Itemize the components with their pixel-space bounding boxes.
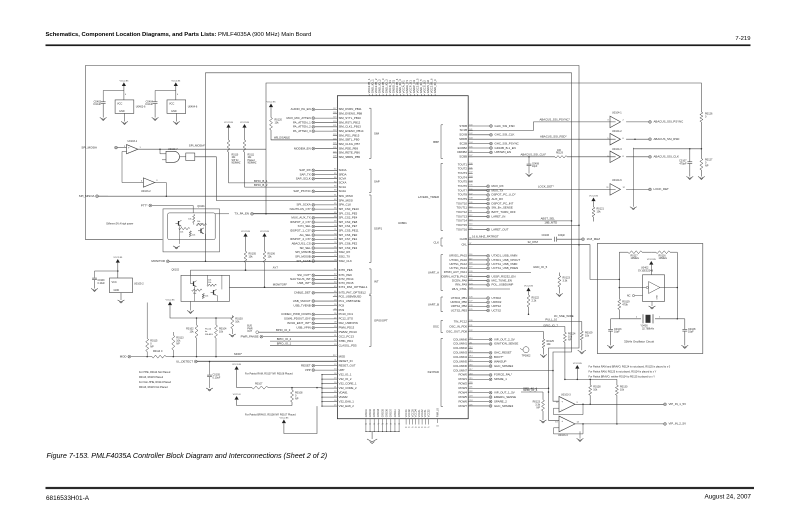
svg-text:STB1_PD4: STB1_PD4: [339, 339, 354, 343]
svg-text:(75XXL): (75XXL): [197, 224, 204, 226]
svg-text:VCCS1: VCCS1: [425, 409, 427, 417]
svg-text:SPARE_1: SPARE_1: [494, 377, 507, 381]
svg-text:GHC_SPARE2: GHC_SPARE2: [494, 364, 514, 368]
resistor R0102: [186, 325, 198, 357]
svg-text:VCCD3: VCCD3: [412, 409, 414, 418]
svg-text:U0801: U0801: [398, 221, 407, 225]
svg-text:VCC: VCC: [169, 102, 174, 105]
svg-text:VCC2.85: VCC2.85: [647, 259, 657, 261]
wire SPI_MOSIA* net: [138, 144, 266, 150]
svg-text:VPP: VPP: [305, 368, 311, 372]
svg-text:CKL: CKL: [461, 243, 467, 247]
svg-text:R0113, R0115 Placed: R0113, R0115 Placed: [139, 376, 164, 379]
svg-text:0.10uF: 0.10uF: [93, 103, 101, 106]
svg-text:VCC2.85: VCC2.85: [279, 418, 289, 420]
svg-text:WLS_CTRL: WLS_CTRL: [452, 287, 468, 291]
svg-text:COLUMN0: COLUMN0: [453, 337, 467, 341]
op-amp U0103-3: [554, 393, 664, 414]
svg-text:0.10uF: 0.10uF: [98, 283, 106, 285]
svg-text:VCC2.85: VCC2.85: [589, 196, 599, 198]
svg-text:ECKB2: ECKB2: [458, 146, 468, 150]
VCC arrow mid-bottom: [565, 363, 617, 380]
U0801 SAP group rows: [229, 168, 380, 193]
svg-text:GNDD1: GNDD1: [366, 408, 368, 417]
svg-text:ROW0: ROW0: [458, 373, 467, 377]
resistor R0110: [227, 128, 241, 183]
svg-text:GND: GND: [657, 294, 659, 299]
buffer U0103-2: [122, 152, 158, 193]
svg-text:SIM: SIM: [374, 132, 380, 136]
transistor pair box Q0101 outer: [163, 205, 220, 252]
svg-text:UL_DETECT: UL_DETECT: [176, 359, 193, 363]
svg-text:UART_A: UART_A: [428, 271, 439, 275]
svg-text:PC8: PC8: [339, 303, 345, 307]
svg-text:VCC1.85: VCC1.85: [232, 364, 242, 366]
svg-text:SCKB: SCKB: [459, 133, 467, 137]
svg-text:U0105-2: U0105-2: [134, 282, 144, 285]
resistor R0124: [563, 327, 576, 381]
capacitor C0107: [679, 149, 692, 177]
wire ABACUS_SSI_CLK* with series resistor R0129: [468, 156, 555, 158]
U0801 UART_A group rows: [428, 254, 548, 291]
svg-text:43: 43: [415, 427, 417, 429]
resistor R0127: [700, 149, 713, 177]
connector SPI_MISOA: [79, 194, 108, 198]
svg-text:TX_PA_EN: TX_PA_EN: [234, 212, 249, 216]
VCC arrow R0110: [226, 124, 230, 128]
svg-text:SPI_MOSIA: SPI_MOSIA: [81, 145, 97, 149]
svg-text:Figure 7-153. PMLF4035A Contro: Figure 7-153. PMLF4035A Controller Block…: [47, 451, 328, 460]
svg-text:CLK: CLK: [433, 240, 439, 244]
svg-text:GPIO/GPT: GPIO/GPT: [374, 319, 388, 323]
ground under C0402: [100, 118, 107, 121]
svg-text:GNDA2: GNDA2: [398, 408, 401, 417]
svg-text:MONITOR*: MONITOR*: [273, 283, 288, 287]
svg-text:SIP for: SIP for: [232, 159, 239, 162]
svg-text:VCC2.85: VCC2.85: [119, 81, 129, 83]
svg-text:VDA81: VDA81: [339, 390, 348, 394]
svg-text:0.10uF: 0.10uF: [145, 103, 153, 106]
svg-text:USB_INT*: USB_INT*: [297, 281, 311, 285]
svg-text:V32_IO_2: V32_IO_2: [339, 377, 352, 381]
svg-text:V32_CORE_1: V32_CORE_1: [339, 381, 357, 385]
svg-text:32.768kHz: 32.768kHz: [642, 327, 655, 330]
svg-text:32: 32: [398, 423, 400, 425]
svg-text:VCCS2: VCCS2: [428, 409, 430, 417]
svg-text:GHC_SPARE3: GHC_SPARE3: [494, 404, 514, 408]
U0801 UART_B group rows: [428, 296, 502, 312]
ground under C0109: [91, 289, 98, 292]
svg-text:For Patriot RAM, R0125 is not: For Patriot RAM, R0125 is not placed, R0…: [589, 370, 657, 373]
U0801 bottom VCC pin stubs: [405, 409, 430, 429]
U0801 TOUT group rows: [418, 162, 517, 231]
wire osc right net: [677, 252, 679, 319]
svg-text:SSI2_CLK: SSI2_CLK: [339, 259, 352, 263]
svg-text:GD10B_B-1_EN: GD10B_B-1_EN: [495, 146, 516, 150]
svg-text:PWM2_PD10: PWM2_PD10: [339, 330, 358, 334]
svg-text:COLUMN4: COLUMN4: [453, 355, 467, 359]
svg-text:TOUT16: TOUT16: [456, 227, 467, 231]
svg-text:VCC1.8: VCC1.8: [233, 394, 241, 396]
svg-text:SC1B: SC1B: [460, 128, 468, 132]
svg-text:R0107: R0107: [255, 382, 263, 385]
svg-text:-: -: [128, 150, 129, 154]
svg-text:DRDB2: DRDB2: [457, 150, 467, 154]
svg-text:3.3k: 3.3k: [563, 280, 568, 283]
svg-text:V32_EA8_1: V32_EA8_1: [339, 399, 355, 403]
svg-text:POL_USBDUMP: POL_USBDUMP: [492, 283, 514, 287]
svg-text:470k: 470k: [622, 304, 628, 307]
svg-text:ROW2: ROW2: [458, 382, 467, 386]
svg-text:U0103-2: U0103-2: [141, 190, 151, 193]
ground under U0801: [367, 439, 377, 444]
ground under U0103-4: [577, 439, 584, 442]
wire 16B_MTD: [468, 221, 580, 226]
svg-text:PWM_PD13: PWM_PD13: [339, 326, 355, 330]
wire buffer out to SPI_MISOA row: [155, 183, 167, 197]
svg-text:44: 44: [418, 427, 420, 429]
wire top loop 2: [206, 73, 572, 401]
svg-text:ABACUS_SSI_CLK*: ABACUS_SSI_CLK*: [521, 152, 548, 156]
svg-text:INT0_PE6: INT0_PE6: [339, 268, 353, 272]
svg-text:41: 41: [408, 427, 410, 429]
ground under R0123A: [556, 294, 563, 297]
svg-text:MOD: MOD: [339, 354, 346, 358]
transistor Q0101-A: [176, 220, 182, 226]
svg-text:LAYER1_TIMER: LAYER1_TIMER: [418, 195, 439, 199]
svg-text:VCC2.85: VCC2.85: [241, 231, 251, 233]
svg-text:900MHZ: 900MHZ: [232, 163, 242, 165]
U0801 BBP group rows: [433, 124, 518, 159]
capacitor C0109: [92, 271, 118, 289]
svg-text:16.8_MHZ: 16.8_MHZ: [587, 237, 601, 241]
svg-text:SPI_MISOA: SPI_MISOA: [79, 194, 95, 198]
svg-text:For Patriot RAM and BRAVO, R01: For Patriot RAM and BRAVO, R0124 is not …: [589, 365, 671, 368]
svg-text:SPARE_2: SPARE_2: [494, 399, 507, 403]
svg-text:CLKB: CLKB: [460, 237, 468, 241]
connector 16.8_MHZ: [582, 238, 585, 241]
svg-text:COLUMN5: COLUMN5: [453, 359, 467, 363]
svg-text:LOCK_DET*: LOCK_DET*: [538, 185, 555, 189]
svg-text:PULL_10: PULL_10: [545, 317, 557, 321]
svg-text:C0109: C0109: [98, 280, 106, 282]
svg-text:VCCA2: VCCA2: [421, 409, 424, 417]
transistor Q0101-B: [198, 228, 204, 234]
svg-text:VCC2.85: VCC2.85: [166, 300, 176, 302]
svg-text:OSC: OSC: [433, 325, 439, 329]
svg-text:AY7: AY7: [273, 266, 279, 270]
svg-text:ABACUS_SSI_CLK: ABACUS_SSI_CLK: [654, 155, 679, 159]
wire LOCK_DET*: [468, 188, 615, 190]
svg-text:SIM_SBRN_PB5: SIM_SBRN_PB5: [339, 155, 361, 159]
svg-text:GNDA1: GNDA1: [394, 408, 397, 417]
wire GND_IO_4: [521, 388, 549, 393]
U0801 bottom pin PWR_IO: [436, 408, 439, 428]
svg-text:MOD: MOD: [120, 354, 127, 358]
svg-text:10pF: 10pF: [614, 331, 620, 334]
svg-text:PC1_USBT42NE: PC1_USBT42NE: [339, 299, 361, 303]
transistor pair box Q0101 inner: [168, 213, 216, 240]
svg-text:GHC_SSI_CLK: GHC_SSI_CLK: [495, 133, 515, 137]
op-amp U0103-1: [81, 140, 141, 154]
svg-text:VCC: VCC: [112, 281, 117, 284]
svg-text:FORCE_PAL*: FORCE_PAL*: [494, 373, 513, 377]
svg-text:ROW4: ROW4: [458, 390, 467, 394]
connector VIP_IN_1_5V: [664, 403, 667, 406]
svg-text:RESET_OUT: RESET_OUT: [339, 363, 356, 367]
svg-text:PC0_USBVBUSD: PC0_USBVBUSD: [339, 294, 362, 298]
connector MONITOR: [151, 259, 337, 263]
VCC arrow pullup pair: [168, 302, 172, 306]
svg-text:NP: NP: [176, 343, 180, 346]
svg-text:VCC: VCC: [117, 102, 122, 105]
svg-text:UART_B: UART_B: [428, 303, 439, 307]
connector LOCK_DET: [649, 188, 652, 191]
VCC1.8 arrow: [235, 396, 239, 400]
svg-text:U0104-6: U0104-6: [612, 179, 622, 182]
svg-text:U0104-3: U0104-3: [612, 148, 622, 151]
svg-text:10MEG: 10MEG: [659, 257, 668, 260]
svg-text:For Patriot BRAVO, R0108 NP, R: For Patriot BRAVO, R0108 NP, R0107 Place…: [245, 413, 296, 416]
svg-text:R0129: R0129: [556, 152, 564, 154]
svg-text:For Patriot RAM, R0107 NP, R01: For Patriot RAM, R0107 NP, R0108 Placed: [245, 372, 293, 375]
svg-text:U0104-2: U0104-2: [612, 130, 622, 133]
capacitor C0404: [145, 91, 176, 118]
VCC arrow under IC: [279, 406, 317, 433]
U0801 bottom ground pin stubs: [365, 408, 401, 439]
U0801 top pin stubs and labels: [367, 78, 437, 96]
svg-text:WB_DISABLE: WB_DISABLE: [274, 136, 290, 139]
svg-text:10k: 10k: [205, 296, 208, 298]
ground under R0125: [540, 355, 547, 358]
svg-text:SAP_SCLK: SAP_SCLK: [296, 177, 311, 181]
svg-text:PC9: PC9: [339, 308, 345, 312]
svg-text:PWR_IO: PWR_IO: [438, 408, 440, 417]
buffer U0104-6: [606, 148, 648, 207]
resistor R0116: [651, 251, 677, 260]
resistor R0130: [615, 379, 628, 424]
svg-text:MODEM_EN: MODEM_EN: [294, 146, 311, 150]
svg-text:U0103-4: U0103-4: [558, 434, 568, 437]
svg-text:ABACUS_SSI_RSD*: ABACUS_SSI_RSD*: [540, 135, 567, 139]
svg-text:Schematics, Component Location: Schematics, Component Location Diagrams,…: [46, 32, 312, 38]
svg-text:For Non-HHE, R0114 Placed: For Non-HHE, R0114 Placed: [139, 381, 172, 384]
ground under U0402: [649, 306, 656, 309]
svg-text:GNDD5: GNDD5: [382, 408, 384, 417]
svg-text:STDB: STDB: [459, 124, 467, 128]
svg-text:GND_IO_4: GND_IO_4: [523, 388, 537, 392]
svg-text:VIP_OUT_2_5V: VIP_OUT_2_5V: [494, 337, 515, 341]
resistor R0126: [700, 112, 713, 149]
svg-text:SSI AFG: SSI AFG: [205, 333, 213, 336]
VCC arrow U0105: [116, 259, 120, 263]
wire pullup feed: [170, 305, 232, 325]
svg-text:BPIO_IO_1: BPIO_IO_1: [277, 342, 292, 346]
connector PTT*: [141, 203, 193, 213]
svg-text:EC2B: EC2B: [460, 141, 468, 145]
resistor R0128: [589, 379, 601, 405]
svg-text:GND_IO_5: GND_IO_5: [533, 265, 547, 269]
IC U0402-6: [115, 86, 146, 122]
capacitor C0408: [527, 157, 540, 174]
svg-text:CABLE_DET: CABLE_DET: [294, 291, 311, 295]
resistor R0113: [172, 332, 184, 357]
svg-text:AUDIO_PA_EN: AUDIO_PA_EN: [291, 107, 311, 111]
buffer U0104-2: [607, 130, 648, 145]
VCC arrow R0105: [243, 233, 247, 237]
svg-text:LOCK_DET: LOCK_DET: [654, 187, 669, 191]
VCC arrow R0120: [269, 104, 273, 108]
svg-text:BPIO_B_2: BPIO_B_2: [254, 183, 268, 187]
svg-text:ROW1: ROW1: [458, 377, 467, 381]
svg-text:CLASSL_PD5: CLASSL_PD5: [339, 343, 357, 347]
NC pin U0402: [627, 294, 643, 297]
svg-text:BPIO_IO_3: BPIO_IO_3: [276, 328, 291, 332]
resistor R0106: [263, 237, 275, 288]
svg-text:0.10uF: 0.10uF: [213, 376, 221, 379]
svg-text:For Patriot BRAVO, neither R01: For Patriot BRAVO, neither R0124 to R012…: [589, 375, 656, 378]
VCC arrow R0122: [526, 288, 530, 292]
svg-text:BOOT*: BOOT*: [494, 355, 504, 359]
svg-text:28: 28: [382, 423, 384, 425]
svg-text:PC10_OC1: PC10_OC1: [339, 312, 354, 316]
resistor R0125: [542, 332, 554, 355]
svg-text:UCTS1_USB_PDEN: UCTS1_USB_PDEN: [492, 266, 519, 270]
svg-text:24: 24: [365, 423, 367, 425]
svg-text:101: 101: [436, 426, 439, 428]
buffer U0104-1: [607, 112, 648, 128]
ground under C0105: [206, 388, 213, 391]
transistor Q0102-B: [211, 289, 217, 295]
svg-text:OSC_IN_PD0: OSC_IN_PD0: [449, 324, 467, 328]
svg-text:SPI_SCKB: SPI_SCKB: [297, 259, 311, 263]
ground under R0123: [540, 420, 547, 423]
svg-text:-: -: [562, 428, 563, 431]
IC U0801 outline: [337, 96, 468, 419]
U0801 INT group rows: [191, 266, 379, 295]
svg-text:ROW6: ROW6: [458, 399, 467, 403]
svg-text:COLUMN6: COLUMN6: [453, 364, 467, 368]
svg-text:R0111: R0111: [248, 155, 255, 157]
ground under C0408: [526, 174, 533, 177]
svg-text:GNDD4: GNDD4: [378, 408, 380, 417]
svg-text:+: +: [128, 145, 130, 149]
svg-text:U0103-3: U0103-3: [561, 393, 571, 396]
svg-text:WAKEUP: WAKEUP: [494, 359, 506, 363]
svg-text:U0103-7: U0103-7: [168, 148, 178, 151]
svg-text:COLUMN1: COLUMN1: [453, 342, 467, 346]
capacitor C0103: [608, 319, 622, 346]
resistor R0103: [231, 316, 243, 334]
connector ABACUS_SSI_PSYNC: [649, 121, 652, 124]
svg-text:USB_VMOUT: USB_VMOUT: [293, 299, 311, 303]
connector UL_DETECT: [176, 359, 337, 363]
svg-text:SAP: SAP: [374, 180, 380, 184]
svg-text:6816533H01-A: 6816533H01-A: [46, 495, 90, 502]
svg-text:32_KHZ: 32_KHZ: [528, 240, 539, 244]
svg-text:SY10ES2048: SY10ES2048: [638, 269, 654, 272]
svg-text:GNDD2: GNDD2: [370, 408, 372, 417]
svg-text:UCTS2_PB3: UCTS2_PB3: [451, 308, 468, 312]
svg-text:VDA82: VDA82: [339, 395, 348, 399]
wire osc in: [619, 287, 636, 289]
wire loop1 to Q0101: [86, 239, 163, 241]
ground under C0103: [607, 345, 614, 348]
svg-text:GND: GND: [171, 110, 177, 113]
svg-text:PA2_USBVPIN: PA2_USBVPIN: [339, 321, 358, 325]
svg-text:V32_CORE_2: V32_CORE_2: [339, 386, 357, 390]
svg-text:LARET_OUT: LARET_OUT: [492, 227, 509, 231]
svg-text:UCTS2: UCTS2: [492, 308, 502, 312]
svg-text:2.2k: 2.2k: [532, 300, 537, 303]
capacitor C0108: [677, 319, 696, 346]
VCC arrow R0111: [242, 124, 246, 128]
svg-text:NC: NC: [627, 294, 631, 297]
svg-text:GHC_RESET: GHC_RESET: [494, 351, 512, 355]
svg-text:46: 46: [424, 427, 426, 429]
wire junction net R0126 bottom: [633, 148, 702, 150]
resistor R0119: [618, 252, 630, 319]
svg-text:900MHZ: 900MHZ: [248, 163, 258, 165]
svg-text:10k: 10k: [180, 232, 183, 234]
svg-text:GND: GND: [119, 110, 125, 113]
svg-text:VCC2.85: VCC2.85: [171, 81, 181, 83]
svg-text:COLUMN2: COLUMN2: [453, 346, 467, 350]
svg-text:10k: 10k: [208, 279, 211, 281]
svg-text:GND: GND: [114, 289, 120, 292]
svg-text:NP: NP: [537, 407, 541, 410]
Q0102 internal parts: [191, 275, 222, 301]
svg-text:Placed: Placed: [248, 160, 256, 162]
wire VIP_OUT_1_5V to op-amp: [523, 386, 537, 390]
resistor R0104: [205, 325, 227, 357]
svg-text:16B_MTD: 16B_MTD: [544, 221, 557, 225]
svg-text:40: 40: [405, 427, 407, 429]
IC U0404-6: [167, 86, 198, 122]
svg-text:V32_IO_1: V32_IO_1: [339, 372, 352, 376]
svg-text:R0110: R0110: [232, 155, 239, 157]
svg-text:C0106: C0106: [542, 234, 550, 237]
ground under U0105-2: [118, 300, 125, 303]
svg-text:VCC2.85: VCC2.85: [267, 102, 277, 104]
svg-text:GHC_SSI_PSYNC: GHC_SSI_PSYNC: [495, 141, 519, 145]
resistor R0120: [270, 107, 338, 140]
resistor R0109: [580, 322, 593, 351]
svg-text:Different 5V A high power: Different 5V A high power: [106, 222, 133, 225]
svg-text:ABACUS_SSI_PSYNC: ABACUS_SSI_PSYNC: [654, 120, 684, 124]
svg-text:R0113, R0115 Not Placed: R0113, R0115 Not Placed: [139, 386, 168, 389]
resistor R0111: [243, 128, 257, 188]
svg-text:IGNITION_SENSE: IGNITION_SENSE: [494, 342, 518, 346]
connector TX_PA_EN: [215, 212, 337, 216]
wire top loop 1: [86, 66, 580, 421]
svg-text:NAUTILUS_CS*: NAUTILUS_CS*: [290, 207, 312, 211]
Q0101 internal resistors: [179, 215, 207, 244]
svg-text:SSIP1: SSIP1: [374, 227, 382, 231]
svg-text:VCC2.85: VCC2.85: [260, 231, 270, 233]
svg-text:45: 45: [421, 427, 423, 429]
svg-text:August 24, 2007: August 24, 2007: [704, 494, 751, 501]
svg-text:100pF: 100pF: [558, 234, 566, 237]
svg-text:MONITOR: MONITOR: [151, 259, 165, 263]
resistor R0123A pullup: [558, 273, 571, 294]
ground under U0104-6: [630, 207, 637, 210]
svg-text:Q0101: Q0101: [197, 205, 205, 208]
connector ABACUS_SSI_RSD: [649, 138, 652, 141]
svg-text:SPI_MOSIA*: SPI_MOSIA*: [189, 144, 206, 148]
svg-text:GND_IO_6: GND_IO_6: [433, 79, 437, 93]
svg-text:470pF: 470pF: [679, 163, 687, 166]
